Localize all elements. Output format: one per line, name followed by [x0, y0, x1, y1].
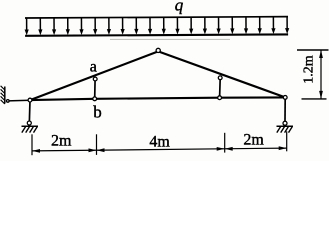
truss top chord left — [30, 51, 158, 100]
right ground hatching — [277, 127, 292, 133]
right dimension top tick — [297, 49, 329, 51]
dimension arrowheads bottom — [32, 146, 287, 153]
wall hatching — [1, 86, 5, 104]
distributed load q : top line — [25, 17, 288, 18]
scan ghost line under beam — [110, 38, 230, 40]
truss bottom chord — [30, 97, 285, 100]
apex hinge — [156, 48, 160, 52]
left end hinge — [28, 98, 32, 102]
truss top chord right — [158, 51, 285, 97]
right support hinge — [283, 121, 287, 125]
svg-text:4m: 4m — [149, 133, 170, 150]
dimension extension ticks bottom — [32, 131, 287, 155]
dimension line bottom — [32, 148, 287, 151]
vertical member right — [219, 78, 222, 98]
vertical member left — [94, 79, 96, 99]
distributed load arrows — [25, 17, 290, 36]
left support ground line — [22, 125, 39, 127]
right bottom hinge — [218, 96, 222, 100]
svg-text:b: b — [93, 103, 102, 122]
left support hinge — [27, 121, 31, 125]
left wall — [4, 87, 6, 104]
right end hinge — [283, 96, 287, 100]
horizontal link wall to node — [8, 99, 30, 102]
right dimension line — [320, 50, 322, 99]
wall pin hinge — [7, 100, 10, 103]
node b hinge — [93, 97, 97, 101]
svg-text:1.2m: 1.2m — [302, 55, 317, 84]
right top hinge — [218, 76, 222, 80]
distributed load q : beam line — [25, 34, 288, 35]
svg-text:2m: 2m — [51, 133, 72, 150]
hinge circles — [7, 48, 288, 125]
left support link — [28, 100, 31, 121]
svg-text:2m: 2m — [243, 132, 264, 149]
svg-text:a: a — [90, 59, 97, 76]
node a hinge — [93, 77, 97, 81]
right support link — [284, 97, 286, 121]
right dimension arrowheads — [319, 50, 323, 99]
right dimension bottom tick — [302, 98, 327, 100]
left ground hatching — [22, 127, 37, 133]
right support ground line — [277, 125, 294, 127]
svg-text:q: q — [175, 0, 184, 15]
